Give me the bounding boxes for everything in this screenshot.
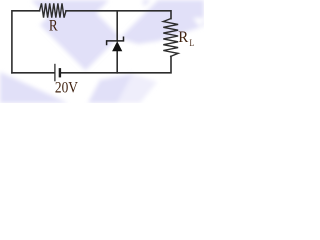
zener bottom lead <box>116 51 118 73</box>
zener D1 cathode bar with bent ends <box>107 37 124 46</box>
battery B1: long thin plate <box>54 64 56 82</box>
zener top lead <box>116 11 118 41</box>
wire: top middle to top-right corner <box>66 11 171 19</box>
wire: battery to bottom-left corner <box>12 72 54 74</box>
wire: right side down to bottom-right corner, bottom to battery <box>61 56 171 72</box>
battery B1: short thick plate <box>59 68 61 77</box>
svg-text:R: R <box>49 18 58 35</box>
svg-text:R: R <box>178 29 188 46</box>
wire: top-left segment <box>12 11 40 73</box>
zener D1 anode triangle <box>112 41 122 51</box>
resistor RL zigzag <box>163 19 178 57</box>
svg-text:20V: 20V <box>55 80 79 97</box>
svg-text:L: L <box>190 39 195 49</box>
resistor R zigzag <box>40 3 67 17</box>
